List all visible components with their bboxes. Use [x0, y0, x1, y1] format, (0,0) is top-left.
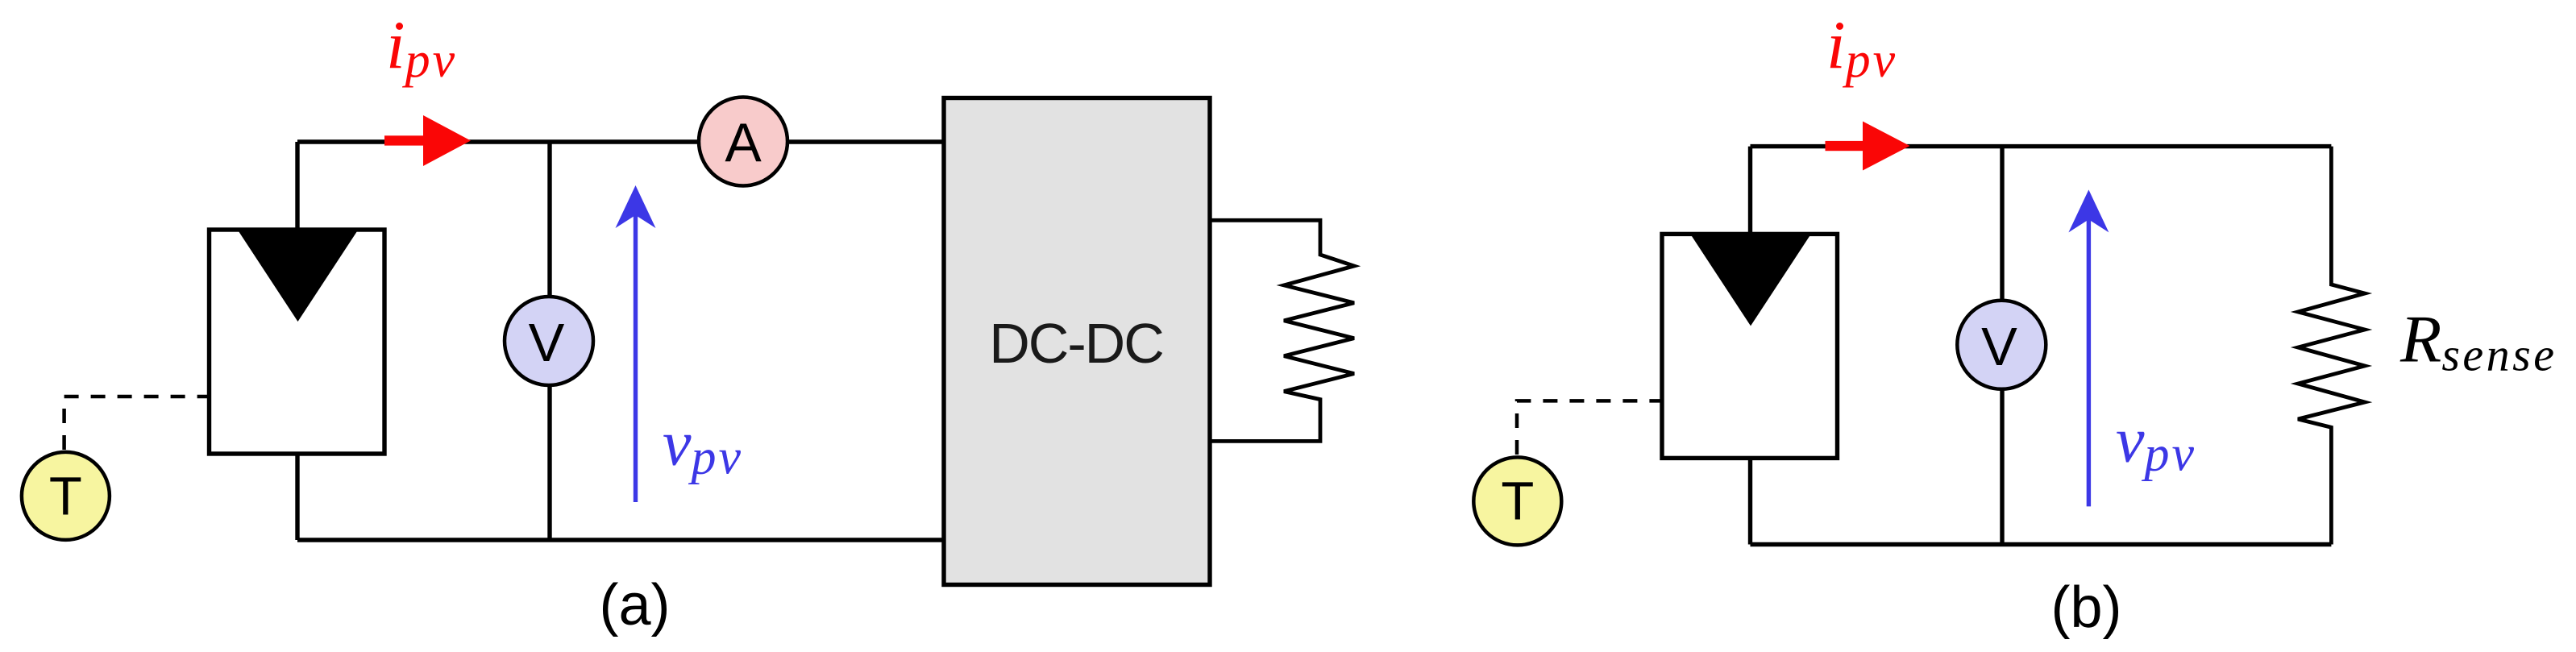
wire bottom (b) from PV to R_sense: [1751, 542, 2332, 546]
svg-text:V: V: [529, 313, 565, 373]
PV panel triangle (a): [239, 231, 357, 322]
wire top (a) from PV to DC-DC: [297, 139, 944, 143]
ammeter A (a): [699, 98, 787, 186]
temperature sensor T (b): [1473, 457, 1561, 545]
wire PV top lead (a): [295, 142, 299, 231]
svg-text:V: V: [1981, 317, 2017, 377]
current arrow i_pv (a): [384, 115, 471, 166]
wire PV top lead (b): [1748, 147, 1752, 236]
voltage arrow v_pv (b): [2068, 189, 2109, 506]
load resistor (a): [1210, 220, 1354, 441]
wire PV bottom lead (b): [1748, 456, 1752, 544]
wire top (b) from PV to R_sense: [1751, 144, 2332, 148]
PV panel (a): [210, 230, 385, 454]
wire voltmeter branch (b): [2000, 147, 2004, 545]
svg-text:DC-DC: DC-DC: [989, 312, 1163, 375]
dashed sensor link (b): [1517, 401, 1661, 455]
svg-text:T: T: [1501, 471, 1534, 532]
wire PV bottom lead (a): [295, 452, 299, 540]
voltmeter V (b): [1957, 301, 2046, 389]
PV panel triangle (b): [1692, 235, 1810, 326]
voltmeter V (a): [505, 297, 593, 385]
PV panel (b): [1662, 234, 1838, 458]
voltage arrow v_pv (a): [616, 185, 656, 502]
svg-text:A: A: [725, 112, 762, 173]
svg-text:T: T: [49, 467, 82, 527]
dashed sensor link (a): [64, 397, 208, 450]
svg-text:(a): (a): [600, 573, 671, 637]
svg-text:(b): (b): [2051, 575, 2122, 640]
DC-DC converter block (a): [944, 98, 1210, 585]
resistor R_sense (b): [2298, 147, 2365, 545]
current arrow i_pv (b): [1826, 122, 1910, 171]
wire bottom (a) from PV to DC-DC: [297, 538, 944, 542]
temperature sensor T (a): [22, 452, 110, 540]
wire voltmeter branch (a): [547, 142, 551, 540]
